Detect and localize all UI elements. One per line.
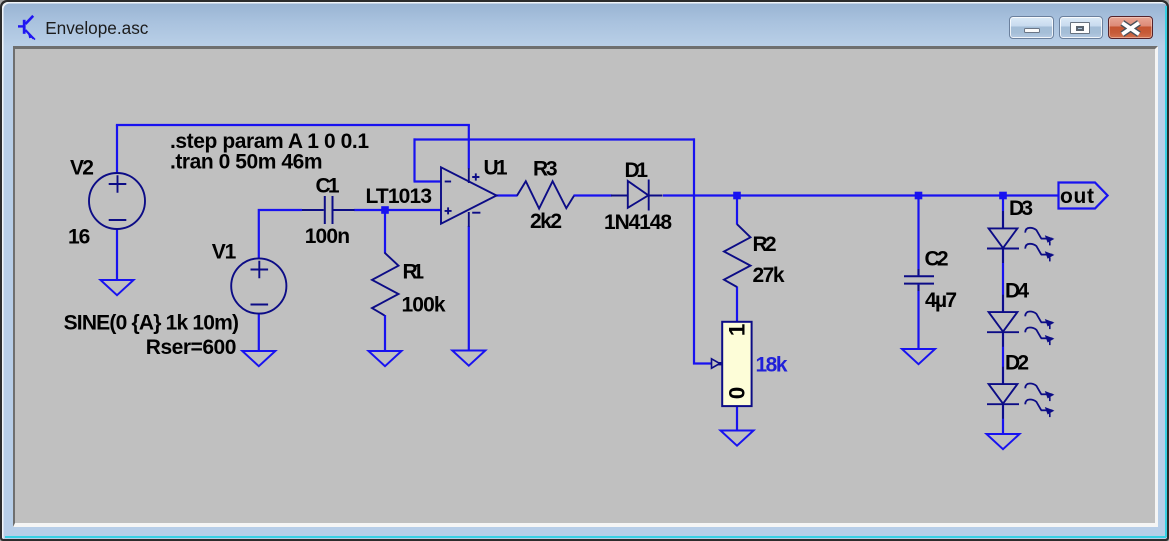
- wire wiper horizontal: [693, 362, 712, 364]
- wire R2 bottom to pot: [736, 287, 738, 323]
- diode D1: [611, 180, 663, 211]
- LED D4: [987, 295, 1054, 347]
- resistor R1: [372, 253, 399, 316]
- capacitor C1: [302, 196, 355, 224]
- potentiometer (18k): [712, 322, 752, 406]
- wire D1 to out port (main rail): [663, 194, 1059, 196]
- wire rail down to opamp V+: [468, 125, 470, 169]
- wire feedback vertical left: [413, 138, 415, 181]
- wire node A down to R1: [384, 209, 386, 253]
- resistor R3: [517, 181, 574, 208]
- wire V2 top to rail: [116, 125, 118, 174]
- wire pot bottom: [736, 406, 738, 431]
- ground (V1): [242, 351, 275, 366]
- close button: [1108, 16, 1154, 40]
- cyan edge lines: [1165, 6, 1167, 537]
- node C junction (C2): [915, 192, 923, 200]
- port out flag: [1059, 183, 1108, 209]
- wire LED chain: [1002, 195, 1004, 229]
- wire node A to opamp +in: [385, 209, 441, 211]
- op-amp U1: [441, 167, 497, 227]
- ground (V2): [101, 280, 134, 295]
- ground (C2): [902, 349, 935, 364]
- wire feedback horizontal: [414, 138, 696, 140]
- voltage source V1: [231, 258, 286, 313]
- wire C2 bottom: [917, 284, 919, 349]
- ground (op-amp): [452, 351, 485, 366]
- node D junction (LEDs): [999, 192, 1007, 200]
- wire top rail: [116, 124, 470, 126]
- wire feedback stub to opamp -in: [414, 180, 441, 182]
- ground (R1): [369, 351, 402, 366]
- LED D3: [987, 211, 1054, 263]
- wire C2 top: [917, 195, 919, 276]
- voltage source V2: [89, 173, 145, 229]
- wire opamp V- to ground: [468, 226, 470, 351]
- minimize button: [1009, 16, 1054, 40]
- ground (LED chain): [987, 434, 1020, 449]
- resistor R2: [724, 224, 751, 287]
- node B junction (R2): [733, 192, 741, 200]
- capacitor C2: [904, 269, 934, 291]
- restore button: [1059, 16, 1104, 40]
- wire R3 to D1: [574, 194, 613, 196]
- wire opamp out to R3: [496, 194, 518, 196]
- wire V1 bottom to ground: [258, 314, 260, 351]
- LTspice titlebar icon (blue transistor): [18, 16, 35, 40]
- wire R2 top: [736, 195, 738, 225]
- wire C1 right to node A: [354, 209, 385, 211]
- wire V1 top to C1: [258, 210, 302, 259]
- wire feedback down to wiper: [693, 138, 695, 364]
- node A junction: [381, 206, 389, 214]
- wire V2 bottom to ground: [116, 229, 118, 280]
- ground (pot): [721, 431, 754, 446]
- wire R1 bottom to ground: [384, 315, 386, 351]
- LED D2: [987, 367, 1054, 419]
- close button X glyph: [1122, 23, 1139, 34]
